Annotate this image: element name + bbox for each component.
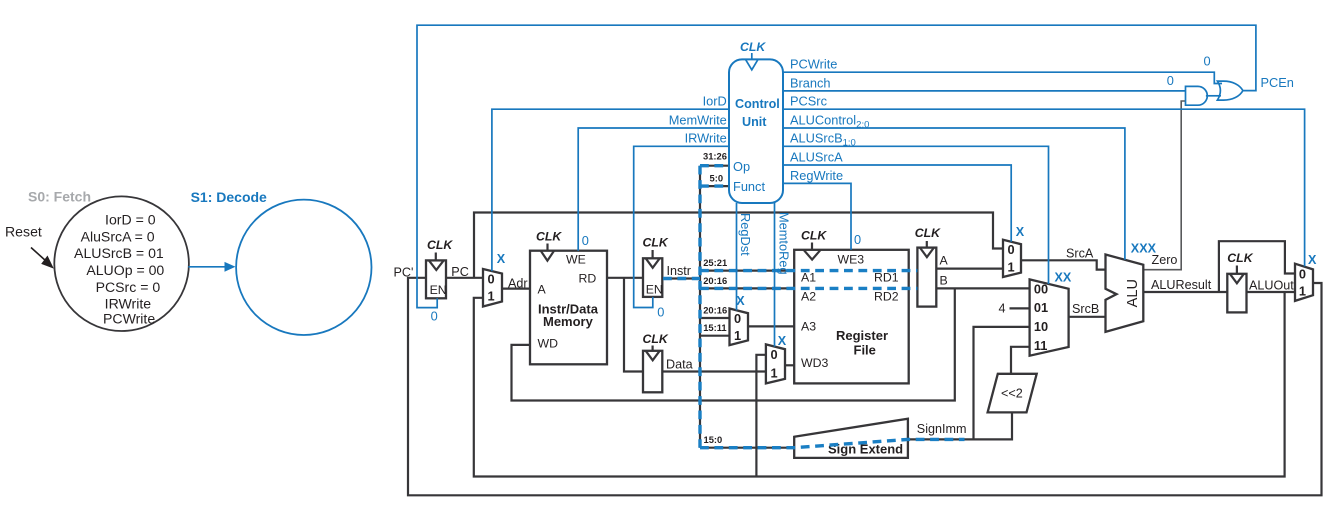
svg-text:XX: XX (1055, 270, 1072, 284)
wire PCWrite to OR gate (783, 72, 1222, 83)
wire PCEn (OR output up over to PC register EN) (417, 25, 1256, 307)
svg-text:0: 0 (657, 305, 664, 320)
svg-text:CLK: CLK (915, 226, 941, 240)
svg-text:A: A (538, 283, 547, 297)
svg-text:CLK: CLK (643, 236, 669, 250)
wire 15:11 to RegDst mux input 1 (700, 335, 730, 337)
AND gate (1186, 86, 1208, 105)
svg-text:A3: A3 (801, 320, 816, 334)
svg-text:CLK: CLK (801, 229, 827, 243)
svg-text:5:0: 5:0 (710, 173, 724, 184)
svg-text:1: 1 (771, 366, 778, 381)
wire ALUOut loop branch up to MemtoReg mux input 0 (756, 355, 766, 477)
svg-text:15:0: 15:0 (704, 434, 723, 445)
svg-text:ALUSrcA: ALUSrcA (790, 149, 843, 164)
svg-text:EN: EN (430, 283, 447, 297)
svg-text:PCWrite: PCWrite (103, 311, 155, 327)
svg-text:Funct: Funct (733, 179, 765, 194)
svg-text:10: 10 (1034, 319, 1048, 334)
svg-text:01: 01 (1034, 300, 1048, 315)
mux MemtoReg (766, 344, 785, 383)
svg-text:PCWrite: PCWrite (790, 57, 837, 72)
wire RegWrite to register file WE3 (783, 183, 851, 249)
svg-text:A2: A2 (801, 290, 816, 304)
dashed Op (700, 164, 729, 167)
svg-text:0: 0 (1299, 267, 1306, 282)
svg-text:PCSrc: PCSrc (790, 94, 828, 109)
svg-text:SignImm: SignImm (917, 422, 967, 436)
wire 20:16 to A2 (700, 287, 794, 289)
svg-text:0: 0 (1167, 73, 1174, 88)
svg-text:0: 0 (431, 308, 438, 323)
svg-text:<<2: <<2 (1001, 387, 1023, 401)
wire instruction bus vertical (699, 166, 701, 448)
svg-text:WD3: WD3 (801, 356, 828, 370)
svg-text:A1: A1 (801, 271, 816, 285)
svg-text:ALUOp = 00: ALUOp = 00 (86, 262, 164, 278)
svg-text:S1: Decode: S1: Decode (191, 189, 267, 205)
svg-text:15:11: 15:11 (703, 322, 726, 333)
control unit U2 (729, 40, 783, 203)
svg-text:0: 0 (488, 271, 495, 286)
svg-text:0: 0 (1204, 54, 1211, 69)
mux SrcB (1030, 279, 1069, 355)
svg-text:IorD = 0: IorD = 0 (105, 211, 156, 227)
memory Instr/Data (530, 230, 607, 365)
state S1 circle (236, 200, 371, 335)
register PC (426, 238, 453, 298)
wire PC to SrcA mux input 0 (up and over) (474, 213, 1003, 278)
wire Adr (mux to memory A) (502, 288, 530, 290)
wire Zero (ALU to AND gate) (1143, 101, 1186, 270)
svg-text:0: 0 (1008, 242, 1015, 257)
wire PC (PC register to Adr mux input 0) (446, 277, 483, 279)
svg-text:SrcA: SrcA (1066, 246, 1094, 260)
dashed 15:0 and SignImm (700, 439, 965, 447)
wire MemtoReg mux output to WD3 (785, 364, 794, 366)
svg-text:Register: Register (836, 328, 888, 343)
wire PC' outer loop (right mux output around bottom to PC register) (408, 278, 1322, 496)
svg-text:X: X (778, 334, 787, 348)
wire 20:16 to RegDst mux input 0 (700, 317, 730, 319)
sign extend (794, 419, 908, 458)
svg-text:CLK: CLK (536, 230, 562, 244)
svg-text:31:26: 31:26 (703, 151, 727, 162)
svg-text:PCEn: PCEn (1261, 75, 1294, 90)
wire AND output to OR input (1206, 95, 1221, 97)
svg-text:1: 1 (1299, 284, 1306, 299)
wire RegDst down to mux select (736, 203, 738, 310)
svg-text:Unit: Unit (742, 115, 767, 129)
wire MemWrite to memory WE (578, 128, 729, 251)
wire ALUControl to ALU (783, 128, 1125, 260)
svg-text:WE3: WE3 (838, 253, 865, 267)
svg-text:20:16: 20:16 (703, 275, 727, 286)
wire Branch to AND gate (783, 90, 1186, 92)
wire SrcB (mux to ALU) (1069, 316, 1106, 318)
wire ALUOut feedback loop (bottom) to Adr mux input 1 (474, 292, 1285, 477)
mux PCSrc (right) (1295, 264, 1313, 301)
svg-text:Reset: Reset (5, 224, 42, 240)
svg-text:RegWrite: RegWrite (790, 168, 843, 183)
svg-text:CLK: CLK (643, 332, 669, 346)
register A/B (915, 226, 949, 306)
svg-text:4: 4 (999, 301, 1006, 315)
svg-text:1: 1 (734, 328, 741, 343)
wire shifter output to SrcB mux input 11 (1011, 347, 1030, 374)
svg-text:AluSrcA = 0: AluSrcA = 0 (81, 228, 155, 244)
svg-text:A: A (940, 253, 949, 267)
register Data (643, 332, 669, 392)
dashed instruction bus vertical (698, 166, 701, 448)
svg-text:X: X (736, 294, 745, 308)
wire Funct 5:0 to control (700, 185, 729, 187)
wire RegDst mux output to A3 (748, 325, 794, 327)
svg-text:PC: PC (451, 265, 469, 279)
wire RD to Instr register (607, 277, 644, 279)
svg-text:Control: Control (735, 97, 780, 111)
svg-text:Adr: Adr (508, 276, 528, 290)
dashed Funct (700, 184, 729, 187)
wire 15:0 to sign extend (700, 447, 794, 449)
wire PCSrc to right mux select (783, 109, 1305, 266)
wire Instr register output to bus (663, 277, 700, 279)
wire Op 31:26 to control (700, 165, 729, 167)
wire ALUSrcB to SrcB mux select (783, 146, 1049, 284)
svg-text:Memory: Memory (543, 314, 594, 329)
svg-text:MemtoReg: MemtoReg (777, 212, 792, 275)
state S0 outputs text (74, 211, 164, 326)
dashed 25:21 / A1 / RD1 row (700, 269, 917, 272)
state S0 circle (54, 196, 189, 331)
mux RegDst (730, 309, 749, 346)
shifter <<2 (988, 374, 1037, 413)
svg-text:IRWrite: IRWrite (105, 295, 152, 311)
svg-text:PCSrc = 0: PCSrc = 0 (96, 279, 161, 295)
wire RD branch down to Data register (624, 278, 644, 372)
svg-text:X: X (497, 252, 506, 266)
svg-text:20:16: 20:16 (703, 304, 727, 315)
mux SrcA (1003, 240, 1021, 277)
svg-text:B: B (940, 273, 948, 287)
wire ALUResult (ALU to ALUOut register) (1143, 291, 1227, 293)
svg-text:RD2: RD2 (874, 290, 899, 304)
svg-text:X: X (1308, 253, 1317, 267)
svg-text:Branch: Branch (790, 75, 831, 90)
svg-text:0: 0 (854, 232, 861, 247)
wire IorD to Adr mux select (492, 109, 729, 271)
svg-text:Instr: Instr (667, 264, 692, 278)
wire MemtoReg down to mux select (774, 203, 776, 347)
svg-text:ALUOut: ALUOut (1249, 279, 1294, 293)
svg-text:PC': PC' (394, 265, 414, 279)
svg-text:ALUResult: ALUResult (1151, 278, 1212, 292)
svg-text:ALU: ALU (1125, 279, 1141, 307)
wire A (A/B reg to SrcA mux input 1) (936, 268, 1003, 270)
svg-text:0: 0 (734, 311, 741, 326)
ALU U1 (1106, 255, 1144, 332)
svg-text:IRWrite: IRWrite (685, 131, 727, 146)
svg-text:ALUSrcB = 01: ALUSrcB = 01 (74, 245, 164, 261)
svg-text:XXX: XXX (1131, 241, 1157, 255)
register IR (Instr) (643, 236, 669, 297)
dashed 20:16 / A2 / RD2 row (700, 287, 917, 290)
OR gate (1217, 81, 1243, 100)
wire constant 4 to SrcB mux input 01 (1010, 307, 1030, 309)
wire ALUOut (register to right mux input 1) (1247, 291, 1296, 293)
svg-text:1: 1 (488, 289, 495, 304)
wire ALUSrcA to SrcA mux select (783, 165, 1011, 242)
svg-text:CLK: CLK (1227, 251, 1253, 265)
wire 25:21 to A1 (700, 270, 794, 272)
svg-text:SrcB: SrcB (1072, 302, 1099, 316)
svg-text:RegDst: RegDst (738, 213, 753, 256)
dashed Instr output (663, 277, 700, 280)
svg-text:File: File (854, 343, 876, 358)
svg-text:EN: EN (646, 282, 663, 296)
svg-text:Op: Op (733, 159, 750, 174)
svg-text:0: 0 (771, 347, 778, 362)
svg-text:RD1: RD1 (874, 271, 899, 285)
transition arrow S0 to S1 (188, 262, 235, 272)
svg-text:CLK: CLK (427, 238, 453, 252)
svg-text:WD: WD (538, 337, 559, 351)
svg-text:RD: RD (579, 272, 597, 286)
svg-text:25:21: 25:21 (703, 257, 727, 268)
svg-text:S0: Fetch: S0: Fetch (28, 189, 91, 205)
svg-text:0: 0 (582, 233, 589, 248)
svg-text:1: 1 (1008, 259, 1015, 274)
svg-text:CLK: CLK (740, 40, 766, 54)
wire ALUResult bypass up to right mux input 0 (1219, 241, 1295, 292)
Reset arrow (31, 248, 54, 269)
svg-text:11: 11 (1034, 338, 1048, 353)
wire IRWrite to Instr register EN (634, 146, 729, 307)
wire SignImm (sign extend to shifter, branch to SrcB mux input 10) (908, 412, 1012, 439)
register ALUOut (1227, 251, 1253, 312)
svg-text:WE: WE (566, 253, 586, 267)
svg-text:MemWrite: MemWrite (669, 112, 727, 127)
register file (794, 229, 909, 384)
wire B (A/B reg to SrcB mux input 00) (936, 287, 1029, 289)
svg-text:00: 00 (1034, 281, 1048, 296)
wire B register to WD loop (bottom) to memory WD (512, 288, 955, 400)
svg-text:IorD: IorD (703, 94, 727, 109)
mux IorD (Adr select) (483, 269, 502, 307)
wire SrcA (mux to ALU) (1021, 260, 1106, 269)
svg-text:Data: Data (666, 358, 693, 372)
wire Data (register to MemtoReg mux input 1) (663, 370, 766, 372)
svg-text:X: X (1016, 225, 1025, 239)
